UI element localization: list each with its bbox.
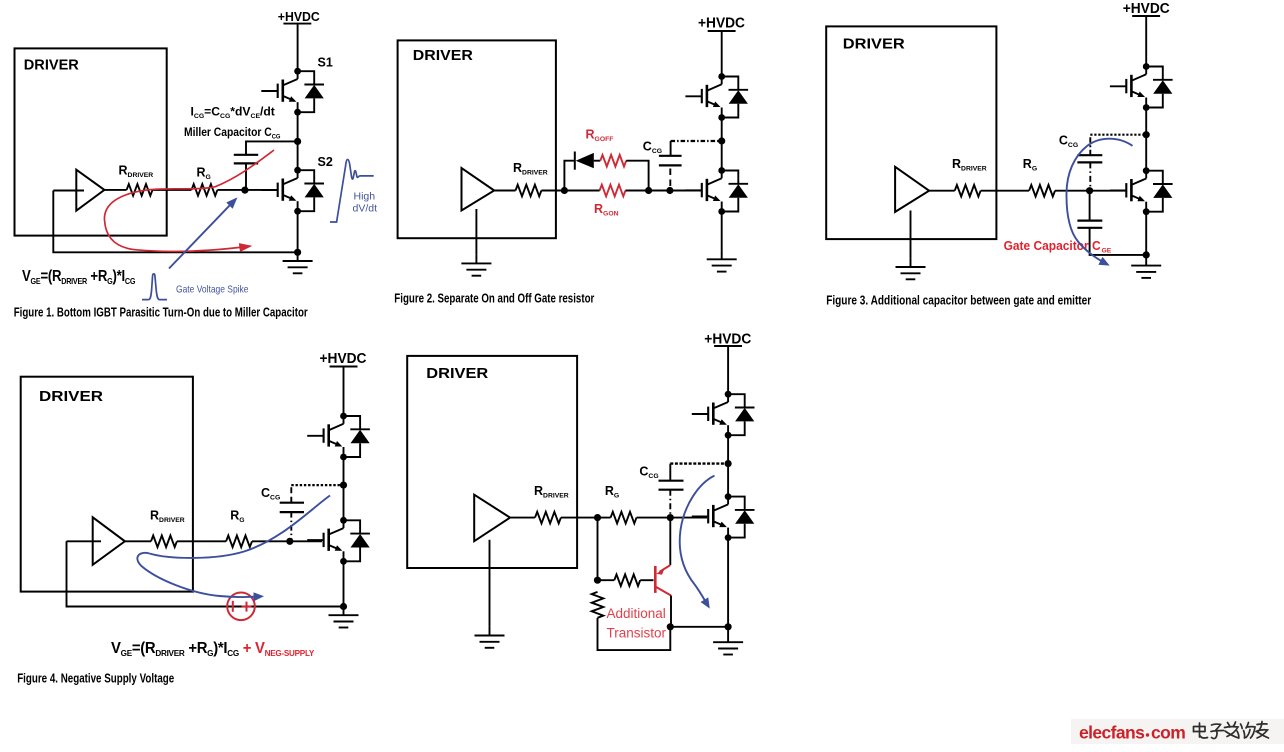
op-amp buffer xyxy=(93,517,125,565)
label Miller Capacitor CCG xyxy=(184,127,281,141)
svg-text:RDRIVER: RDRIVER xyxy=(150,509,185,525)
node ground junction xyxy=(725,623,732,630)
wire RDRIVER to split node xyxy=(541,190,564,192)
resistor RG xyxy=(611,512,637,524)
gate voltage spike waveform xyxy=(142,274,167,300)
svg-text:S1: S1 xyxy=(318,56,333,70)
wire top emitter to mid node xyxy=(721,118,723,171)
driver block U3 xyxy=(826,26,996,239)
wire HVDC to top igbt xyxy=(1145,16,1147,67)
supply rail tick xyxy=(1132,15,1160,17)
current path blue curve lower with arrow xyxy=(137,553,261,597)
svg-text:CCG: CCG xyxy=(1059,134,1078,150)
wire CCG dash stem up xyxy=(290,485,292,503)
svg-text:RDRIVER: RDRIVER xyxy=(513,161,548,177)
wire RDRIVER to RG xyxy=(177,540,226,542)
ground xyxy=(727,627,729,634)
supply rail tick xyxy=(330,366,358,368)
wire top emitter to mid node xyxy=(343,457,345,520)
svg-text:+HVDC: +HVDC xyxy=(1123,1,1170,17)
label VGE equation xyxy=(22,268,135,286)
capacitor CCG xyxy=(659,481,684,490)
wire top emitter to mid node xyxy=(1145,108,1147,171)
svg-text:High: High xyxy=(354,191,376,203)
svg-text:ICG=CCG*dVCE/dt: ICG=CCG*dVCE/dt xyxy=(191,105,275,120)
svg-text:DRIVER: DRIVER xyxy=(413,47,473,64)
wire S1 emitter to midpoint node xyxy=(297,112,299,170)
wire RGOFF to gate line xyxy=(626,161,648,191)
transistor bottom igbt with diode xyxy=(692,493,755,541)
node C xyxy=(667,623,674,630)
svg-text:RG: RG xyxy=(1023,157,1037,173)
transistor bottom igbt with diode xyxy=(1110,167,1173,215)
wire gate node to CGE xyxy=(1089,191,1091,221)
svg-text:RDRIVER: RDRIVER xyxy=(952,157,987,173)
wire CCG stem up xyxy=(669,464,671,481)
node B xyxy=(594,577,601,584)
transistor bottom igbt with diode xyxy=(685,167,748,215)
wire HVDC to top igbt xyxy=(721,31,723,77)
wire split node to RGON xyxy=(564,190,599,192)
node mid rail xyxy=(340,482,347,489)
svg-text:VGE=(RDRIVER +RG)*ICG: VGE=(RDRIVER +RG)*ICG xyxy=(22,268,135,286)
node gate xyxy=(667,514,674,521)
wire feedback to ground rail xyxy=(53,191,294,253)
svg-text:Additional: Additional xyxy=(607,606,666,621)
wire buffer to RDRIVER xyxy=(494,190,515,192)
resistor RDRIVER xyxy=(516,185,542,197)
driver block U2 xyxy=(398,40,556,238)
svg-text:Figure 2. Separate On and Off: Figure 2. Separate On and Off Gate resis… xyxy=(394,291,594,306)
svg-text:elecfans: elecfans xyxy=(1079,723,1145,743)
wire S2 emitter to ground node xyxy=(297,211,299,252)
ground xyxy=(283,252,313,273)
gate spike arrow blue xyxy=(169,199,236,269)
wire gate node down to transistor emitter xyxy=(669,518,671,566)
node mid rail xyxy=(1143,131,1150,138)
resistor RG xyxy=(192,184,218,196)
source VNEG circle xyxy=(227,593,255,621)
capacitor CCG miller xyxy=(234,155,258,164)
capacitor CGE xyxy=(1077,221,1102,228)
wire miller cap to gate node xyxy=(245,164,247,191)
wire RG to gate xyxy=(252,540,322,542)
wire bottom emitter to ground xyxy=(721,212,723,251)
wire CCG dashdot to gate node xyxy=(290,512,292,541)
current path red curve xyxy=(104,150,274,251)
wire buffer to RDRIVER xyxy=(929,190,955,192)
wire RDRIVER to RG xyxy=(153,189,192,191)
wire node A down to node B xyxy=(597,518,599,581)
high dvdt waveform xyxy=(330,160,374,223)
wire midpoint to miller cap xyxy=(246,141,298,154)
wire RDRIVER to node A xyxy=(561,517,611,519)
wire RGON to gate xyxy=(626,190,702,192)
wire node C to rail xyxy=(670,626,728,628)
node gate S2 xyxy=(241,187,248,194)
current path blue curve upper xyxy=(150,496,331,558)
wire RG to gate xyxy=(217,189,277,191)
node mid rail xyxy=(725,460,732,467)
node A split xyxy=(594,514,601,521)
capacitor CCG xyxy=(1077,155,1102,162)
wire CCG dotted link to rail xyxy=(1090,134,1146,136)
node RGOFF junction xyxy=(645,187,652,194)
svg-text:DRIVER: DRIVER xyxy=(24,57,79,74)
op-amp buffer xyxy=(76,170,104,211)
svg-text:Figure 4. Negative Supply Volt: Figure 4. Negative Supply Voltage xyxy=(17,671,174,686)
node gate xyxy=(1086,187,1093,194)
ground xyxy=(707,251,737,272)
wire RG to gate xyxy=(637,517,708,519)
svg-text:Miller Capacitor CCG: Miller Capacitor CCG xyxy=(184,127,281,141)
svg-text:DRIVER: DRIVER xyxy=(843,36,905,53)
wire HVDC to S1 xyxy=(297,24,299,72)
resistor pulldown vertical xyxy=(592,592,604,618)
node midpoint xyxy=(294,138,301,145)
wire transistor collector down to node C xyxy=(670,596,672,627)
resistor RG xyxy=(1029,185,1055,197)
current path blue curve xyxy=(680,476,715,607)
driver block U1 xyxy=(15,48,167,235)
svg-text:RGON: RGON xyxy=(594,202,619,218)
wire CCG stem up xyxy=(670,141,672,156)
diode off branch xyxy=(574,152,576,170)
node ground junction xyxy=(294,249,301,256)
node CCG junction xyxy=(666,187,673,194)
logo chinese 电子发烧友 xyxy=(1194,722,1269,739)
resistor RDRIVER xyxy=(151,536,177,548)
wire RG to gate xyxy=(1055,190,1126,192)
svg-text:com: com xyxy=(1151,723,1185,743)
transistor S2 with diode xyxy=(261,167,324,215)
driver block U4 xyxy=(21,377,193,592)
wire node B to base resistor xyxy=(598,579,615,581)
wire HVDC to top igbt xyxy=(343,367,345,417)
svg-text:DRIVER: DRIVER xyxy=(426,365,488,382)
svg-text:Figure 3. Additional capacitor: Figure 3. Additional capacitor between g… xyxy=(826,293,1091,308)
svg-text:DRIVER: DRIVER xyxy=(39,388,103,405)
node gate xyxy=(286,538,293,545)
transistor top igbt with diode xyxy=(1110,63,1173,111)
op-amp buffer xyxy=(895,167,929,212)
supply rail tick xyxy=(714,345,742,347)
wire buffer to RDRIVER xyxy=(510,517,535,519)
svg-text:CCG: CCG xyxy=(639,465,658,481)
svg-text:Figure 1. Bottom IGBT Parasiti: Figure 1. Bottom IGBT Parasitic Turn-On … xyxy=(14,305,308,320)
resistor RDRIVER xyxy=(955,185,981,197)
ground xyxy=(329,607,359,628)
svg-text:S2: S2 xyxy=(318,155,333,169)
svg-text:Transistor: Transistor xyxy=(607,626,667,641)
wire CCG dashed to gate node xyxy=(669,169,671,189)
op-amp buffer xyxy=(462,168,495,211)
svg-text:RDRIVER: RDRIVER xyxy=(534,484,569,500)
wire bottom emitter to ground node xyxy=(727,538,729,627)
transistor top igbt with diode xyxy=(307,413,370,461)
svg-text:RG: RG xyxy=(605,484,619,500)
wire buffer to RDRIVER xyxy=(104,189,126,191)
node ground junction xyxy=(340,603,347,610)
op-amp buffer xyxy=(474,495,510,542)
svg-text:+HVDC: +HVDC xyxy=(698,16,745,32)
resistor RGOFF xyxy=(600,155,626,167)
source VNEG plus mark xyxy=(242,602,252,612)
svg-text:RDRIVER: RDRIVER xyxy=(119,164,154,180)
wire pulldown to bottom loop xyxy=(598,618,671,650)
wire buffer ground stem xyxy=(475,209,477,255)
resistor RDRIVER xyxy=(127,184,153,196)
transistor Q1 pnp red xyxy=(655,565,671,595)
ground xyxy=(896,258,926,279)
svg-text:CCG: CCG xyxy=(261,486,280,502)
svg-text:GE: GE xyxy=(1102,248,1112,255)
wire CCG dashdot to gate node xyxy=(669,490,671,518)
node mid rail xyxy=(718,137,725,144)
driver block U5 xyxy=(407,356,577,568)
svg-text:Gate Voltage Spike: Gate Voltage Spike xyxy=(176,284,249,296)
ground xyxy=(475,627,505,648)
resistor RDRIVER xyxy=(535,512,561,524)
svg-text:+HVDC: +HVDC xyxy=(278,10,320,24)
wire CCG dotted link to rail xyxy=(670,462,728,464)
wire input to buffer xyxy=(67,540,102,542)
label VGE equation with neg supply xyxy=(111,640,315,659)
resistor base xyxy=(614,574,640,586)
svg-text:RG: RG xyxy=(230,509,244,525)
capacitor CCG xyxy=(280,503,304,512)
svg-text:RG: RG xyxy=(197,166,211,182)
supply rail tick xyxy=(283,23,311,25)
svg-text:VGE=(RDRIVER +RG)*ICG + VNEG-S: VGE=(RDRIVER +RG)*ICG + VNEG-SUPPLY xyxy=(111,640,315,659)
supply rail tick xyxy=(708,30,736,32)
ground xyxy=(461,255,491,276)
wire up to off branch xyxy=(564,161,574,191)
wire CCG dotted link to rail xyxy=(291,484,343,486)
svg-text:RGOFF: RGOFF xyxy=(586,128,614,144)
wire bottom emitter to ground node xyxy=(343,561,345,606)
node ground junction xyxy=(1143,251,1150,258)
wire diode to RGOFF xyxy=(594,160,601,162)
wire buffer ground stem xyxy=(489,540,491,627)
wire buffer ground stem xyxy=(910,211,912,259)
wire RDRIVER to RG xyxy=(981,190,1030,192)
wire CGE to ground rail xyxy=(1090,228,1147,255)
resistor RGON xyxy=(600,185,626,197)
wire HVDC to top igbt xyxy=(727,346,729,394)
wire base resistor to transistor xyxy=(640,579,653,581)
wire feedback to ground rail xyxy=(67,541,341,606)
ground xyxy=(1131,257,1161,278)
node split xyxy=(561,187,568,194)
transistor bottom igbt with diode xyxy=(307,517,370,565)
logo band xyxy=(1071,719,1284,744)
wire input to buffer xyxy=(53,190,84,192)
wire CCG dashdot up xyxy=(1089,135,1091,156)
svg-text:+HVDC: +HVDC xyxy=(320,351,367,367)
capacitor CCG xyxy=(659,156,682,166)
transistor top igbt with diode xyxy=(685,73,748,121)
wire CCG dashed link to rail xyxy=(671,140,722,142)
transistor S1 with diode xyxy=(261,68,324,116)
resistor RG xyxy=(226,536,252,548)
wire buffer to RDRIVER xyxy=(125,540,151,542)
svg-text:CCG: CCG xyxy=(643,140,662,156)
source VNEG minus mark xyxy=(232,601,234,612)
wire top emitter to mid node xyxy=(727,435,729,496)
transistor top igbt with diode xyxy=(692,391,755,439)
label ICG equation xyxy=(191,105,275,120)
wire CCG dashdot to gate node xyxy=(1089,162,1091,190)
current path blue curve xyxy=(1066,139,1132,265)
wire bottom emitter to ground node xyxy=(1145,212,1147,257)
svg-text:dV/dt: dV/dt xyxy=(353,203,378,215)
